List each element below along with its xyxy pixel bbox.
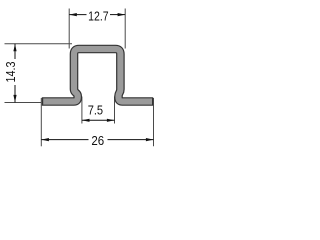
svg-text:12.7: 12.7 — [88, 9, 109, 24]
svg-text:26: 26 — [91, 133, 104, 148]
svg-text:7.5: 7.5 — [88, 103, 103, 118]
svg-text:14.3: 14.3 — [3, 62, 18, 83]
